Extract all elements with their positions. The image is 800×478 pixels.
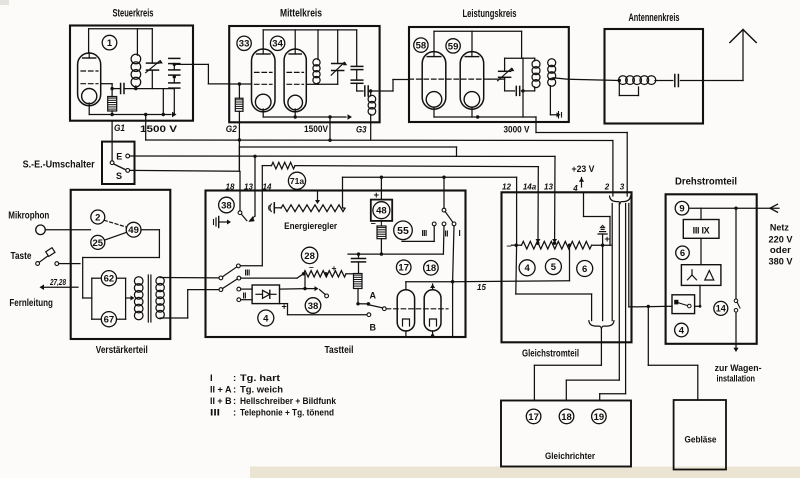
wire Taste stub bbox=[71, 263, 80, 265]
block box Antennenkreis bbox=[605, 29, 704, 124]
switch pole bbox=[111, 142, 113, 161]
arrow into transformer bbox=[126, 297, 132, 299]
tube V34 grid dashes bbox=[287, 71, 304, 73]
svg-text:Tg. hart: Tg. hart bbox=[240, 373, 281, 384]
svg-text:18: 18 bbox=[426, 263, 437, 274]
node output bbox=[173, 63, 176, 66]
dashed link 2-49 bbox=[104, 220, 126, 227]
svg-text:1500V: 1500V bbox=[304, 124, 329, 135]
wire +23V inside bbox=[583, 192, 585, 216]
wire varcap bottom bbox=[151, 70, 153, 89]
label circle 55 bbox=[394, 221, 413, 240]
tank right leg bbox=[522, 58, 524, 91]
node 28 mid bbox=[324, 272, 327, 275]
tube heater marks bbox=[403, 319, 410, 326]
svg-text:III: III bbox=[210, 408, 220, 419]
node tube top right bbox=[451, 280, 454, 283]
stage label circle 5 bbox=[545, 259, 561, 275]
capacitor C7 bbox=[351, 65, 363, 67]
meter box III IX bbox=[683, 220, 719, 239]
wire G1 to switch bbox=[111, 121, 113, 142]
wire 15 line bbox=[453, 281, 570, 282]
wire varcap C6 drop bbox=[337, 30, 339, 63]
wire coil to cap bbox=[655, 80, 673, 82]
contacts I II III bbox=[432, 222, 436, 226]
node G3 coil top bbox=[368, 90, 393, 92]
node A bbox=[367, 302, 371, 306]
svg-text:II + A: II + A bbox=[210, 385, 232, 396]
wire to antenna bbox=[680, 80, 743, 82]
resistor below 48 bbox=[377, 226, 386, 239]
svg-text:Tg. weich: Tg. weich bbox=[240, 385, 283, 396]
svg-text:18: 18 bbox=[561, 412, 572, 423]
label circle 28 bbox=[301, 247, 317, 263]
terminal circle 19 bbox=[592, 409, 607, 424]
svg-text:III IX: III IX bbox=[693, 226, 710, 236]
svg-text:II + B: II + B bbox=[210, 396, 232, 407]
wire ground to rheostat bbox=[274, 207, 281, 209]
ground Leistungskreis bbox=[557, 112, 561, 117]
wire III contact bbox=[433, 226, 435, 242]
wire pot left bbox=[512, 244, 522, 246]
tube V34 bbox=[284, 49, 306, 112]
relay label circle 67 bbox=[101, 312, 116, 327]
wire 3000V line bbox=[536, 132, 627, 134]
variable capacitor C6 bbox=[332, 63, 344, 65]
contact B bbox=[367, 313, 371, 317]
block box Tastteil bbox=[206, 191, 466, 338]
mode selector switch bbox=[442, 208, 446, 212]
wire brace output to Gleichrichter bbox=[600, 329, 602, 365]
wire node up to 28 bbox=[304, 274, 306, 289]
wire pot right bbox=[592, 244, 611, 246]
wire 28 right to resistor bbox=[346, 273, 358, 275]
svg-text:12: 12 bbox=[502, 183, 511, 192]
svg-text:installation: installation bbox=[717, 374, 756, 385]
tank bottom + capacitor C11 bbox=[505, 90, 515, 92]
wire 12 drop bbox=[516, 177, 518, 245]
tank top bbox=[505, 57, 523, 59]
stage label circle 14 bbox=[714, 301, 728, 315]
capacitor grid C2 bbox=[120, 84, 122, 94]
1500V arrow Mittel bbox=[348, 114, 353, 120]
svg-text:59: 59 bbox=[448, 41, 459, 52]
svg-text:28: 28 bbox=[304, 251, 315, 262]
scan edge strip bottom bbox=[250, 467, 800, 478]
block box Leistungskreis bbox=[409, 27, 569, 122]
svg-text:Mikrophon: Mikrophon bbox=[8, 211, 49, 222]
coil L2 tank bbox=[313, 59, 320, 66]
svg-text:+23 V: +23 V bbox=[572, 164, 595, 174]
wire grid line dashed bbox=[409, 78, 489, 80]
wire cathode rail 1500V bbox=[88, 103, 90, 115]
svg-text:A: A bbox=[370, 291, 377, 301]
wire anode rail Leistung bbox=[433, 31, 435, 51]
svg-text:Verstärkerteil: Verstärkerteil bbox=[96, 345, 148, 356]
wire tank to rail bbox=[522, 91, 524, 117]
svg-text:III: III bbox=[422, 229, 427, 238]
stage label circle 4 Drehstrom bbox=[675, 323, 689, 337]
lever S-branch bbox=[241, 214, 246, 220]
wire 49 to transformer bbox=[141, 229, 159, 231]
transformer T1 secondary bbox=[156, 277, 164, 285]
svg-text:–: – bbox=[507, 241, 512, 251]
diode D1 bbox=[256, 293, 263, 295]
wire cathode rail Leistung bbox=[433, 107, 435, 117]
wire antenna input bbox=[569, 79, 620, 80]
svg-text:14: 14 bbox=[716, 304, 726, 314]
block box Drehstromteil bbox=[666, 194, 757, 343]
wire 1500V bus bbox=[146, 139, 613, 142]
node 12 to pot bbox=[515, 244, 518, 247]
key switch Taste bbox=[36, 262, 40, 266]
svg-text:55: 55 bbox=[397, 225, 409, 237]
relay coils 62/67 parallel loop bbox=[91, 278, 93, 319]
capacitor C8 bbox=[351, 79, 363, 81]
node 48 bottom bbox=[380, 252, 383, 255]
svg-text:Gleichstromteil: Gleichstromteil bbox=[522, 349, 579, 360]
tube V34 label circle 34 bbox=[270, 36, 284, 50]
wire 3000V drop bbox=[535, 117, 537, 133]
wire interstage Mittel-Leistung bbox=[392, 80, 394, 92]
node contactor out bbox=[699, 305, 702, 308]
svg-text:380 V: 380 V bbox=[769, 257, 794, 268]
star symbol bbox=[691, 270, 693, 275]
svg-text::: : bbox=[233, 373, 236, 384]
svg-text:62: 62 bbox=[104, 274, 115, 285]
relay label circle 62 bbox=[101, 271, 116, 286]
potentiometer bbox=[522, 241, 592, 249]
node grid junction bbox=[110, 87, 113, 90]
tube V58 label circle 58 bbox=[414, 38, 428, 52]
terminal circle 18 bbox=[559, 409, 574, 424]
contact III upper bbox=[237, 264, 241, 268]
label circle 18 Tastteil bbox=[424, 261, 439, 276]
svg-text::: : bbox=[233, 408, 236, 419]
transformer T1 core bbox=[147, 275, 149, 322]
contactor box bbox=[672, 295, 695, 314]
svg-text:II: II bbox=[445, 230, 449, 239]
wire tube bottoms bbox=[405, 331, 407, 336]
svg-text:Gleichrichter: Gleichrichter bbox=[545, 451, 595, 462]
tube small 18 bbox=[424, 290, 441, 331]
resistor G1 (grid leak) bbox=[108, 97, 117, 112]
rheostat wiper arrow bbox=[317, 192, 319, 201]
tube V58 bbox=[422, 52, 446, 110]
wire diode out bbox=[280, 288, 306, 291]
svg-text:B: B bbox=[370, 323, 377, 333]
cable brace top bbox=[610, 196, 631, 204]
resistor G2 bbox=[235, 98, 243, 111]
wire to output cap bbox=[357, 90, 363, 92]
node wiper 13 bbox=[553, 242, 556, 245]
stage label circle 49 bbox=[126, 222, 141, 237]
capacitor C13 bbox=[358, 254, 360, 258]
capacitor stack C4 bbox=[169, 69, 180, 71]
svg-text:Telephonie + Tg. tönend: Telephonie + Tg. tönend bbox=[240, 408, 334, 419]
resistor 71a bbox=[272, 162, 296, 169]
node 48 feed bbox=[380, 176, 383, 179]
coil L5 secondary bbox=[548, 59, 556, 67]
svg-text:25: 25 bbox=[93, 238, 104, 249]
svg-text:Leistungskreis: Leistungskreis bbox=[463, 8, 517, 20]
node plus end bbox=[601, 244, 604, 247]
antenna symbol bbox=[730, 30, 756, 43]
wire 13 drop with wiper arrow bbox=[554, 156, 556, 240]
wire lower contact to 28 bbox=[241, 277, 297, 279]
wire grid to coil bbox=[124, 88, 174, 90]
stage label circle 9 bbox=[675, 201, 689, 215]
wire Fernleitung stub bbox=[71, 286, 78, 288]
svg-text:71a: 71a bbox=[290, 176, 304, 186]
wire interstage Steuer-Mittel bbox=[176, 63, 209, 65]
svg-text:27,28: 27,28 bbox=[49, 277, 66, 287]
tube V1 bbox=[78, 53, 101, 106]
svg-text::: : bbox=[233, 396, 236, 407]
wire secondary top to switch bbox=[160, 277, 219, 279]
wire I contact bbox=[453, 226, 454, 282]
svg-text:I: I bbox=[210, 373, 213, 384]
wire plus output down bbox=[602, 245, 604, 320]
wire meter to star-delta bbox=[700, 238, 702, 264]
tube V33 bbox=[252, 49, 276, 112]
label circle 38b bbox=[305, 298, 321, 314]
wire brace feeds bbox=[611, 204, 613, 321]
coil L4 primary bbox=[523, 57, 535, 59]
coil tap link bbox=[618, 81, 620, 96]
node stack lower bbox=[173, 75, 176, 78]
svg-text:Drehstromteil: Drehstromteil bbox=[675, 177, 737, 188]
coil L1 bbox=[131, 54, 141, 64]
stage label circle 4 bbox=[519, 260, 535, 276]
svg-text::: : bbox=[233, 385, 236, 396]
node cap bbox=[357, 252, 360, 255]
svg-text:4: 4 bbox=[263, 313, 269, 324]
wire coil L2 top drop bbox=[317, 30, 319, 60]
svg-text:2: 2 bbox=[95, 212, 100, 223]
wire row 254 bbox=[348, 253, 443, 255]
svg-text:–: – bbox=[309, 262, 314, 272]
cable brace bottom bbox=[589, 321, 614, 329]
tube V1 grid dashes bbox=[81, 70, 98, 72]
svg-text:17: 17 bbox=[398, 263, 409, 274]
node 28 left bbox=[302, 272, 305, 275]
svg-text:+: + bbox=[332, 263, 337, 273]
svg-text:4: 4 bbox=[524, 263, 530, 274]
wire Fernleitung with arrow bbox=[41, 286, 71, 288]
wire 12 line bbox=[343, 176, 517, 178]
switch box S-E-Umschalter bbox=[102, 142, 135, 184]
svg-text:3000 V: 3000 V bbox=[504, 125, 531, 136]
node mains bbox=[734, 207, 737, 210]
lever A-B bbox=[370, 305, 383, 308]
lever 38 bbox=[320, 290, 326, 295]
label circle 71a bbox=[288, 172, 305, 189]
wire 71a to terminal 14a bbox=[295, 166, 538, 167]
tube V59 label circle 59 bbox=[446, 39, 460, 53]
svg-text:34: 34 bbox=[272, 39, 283, 50]
wire 1500V drop to bus bbox=[145, 115, 147, 141]
svg-text:Antennenkreis: Antennenkreis bbox=[629, 12, 680, 24]
svg-text:14a: 14a bbox=[523, 183, 537, 192]
microphone symbol bbox=[36, 225, 46, 235]
svg-text:4: 4 bbox=[572, 184, 578, 193]
mains arrow bbox=[770, 204, 778, 208]
node rail 1500V drop bbox=[144, 113, 147, 116]
svg-text:38: 38 bbox=[308, 301, 319, 312]
svg-text:Mittelkreis: Mittelkreis bbox=[280, 8, 322, 20]
svg-text:1: 1 bbox=[107, 38, 113, 49]
node bus Mittel bbox=[328, 139, 331, 142]
label circle 4 Tastteil bbox=[258, 310, 274, 326]
wire E branch into Tastteil bbox=[254, 156, 256, 216]
resistor 71a line bbox=[262, 165, 271, 167]
stage label circle 6 bbox=[577, 261, 593, 277]
wire cap stack link Mittel bbox=[356, 30, 358, 67]
levers bbox=[223, 267, 237, 277]
tube V59 bbox=[460, 52, 484, 110]
svg-text:13: 13 bbox=[544, 183, 553, 192]
stage label circle 25 bbox=[91, 235, 105, 249]
node A line left bbox=[356, 302, 359, 305]
svg-text:+: + bbox=[374, 190, 380, 201]
svg-text:S.-E.-Umschalter: S.-E.-Umschalter bbox=[23, 160, 95, 171]
wire 1500V drop Mittel bbox=[329, 117, 331, 140]
svg-text:15: 15 bbox=[477, 283, 486, 292]
svg-text:Taste: Taste bbox=[11, 251, 32, 262]
svg-text:G2: G2 bbox=[226, 124, 238, 135]
svg-text:33: 33 bbox=[239, 39, 250, 50]
capacitor C12 antenna bbox=[674, 75, 676, 87]
wire mains vertical with switch bbox=[735, 208, 737, 299]
resistor row 28 bbox=[304, 271, 347, 277]
double switch poles from Verstaerker bbox=[219, 276, 223, 280]
tube V33 grid dashes bbox=[255, 71, 273, 73]
node rail stack bbox=[162, 113, 165, 116]
switch lever bbox=[114, 164, 126, 170]
wire secondary to ground bbox=[549, 86, 551, 115]
label circle 17 Tastteil bbox=[396, 260, 411, 275]
wire Taste bbox=[59, 263, 71, 265]
wire tank bottom row bbox=[317, 83, 319, 84]
wire star-delta down bbox=[699, 285, 701, 306]
wire tube tops bbox=[405, 282, 407, 290]
contact III lower bbox=[237, 276, 241, 280]
dashed line through tubes bbox=[386, 308, 448, 310]
node diode out bbox=[303, 287, 306, 290]
wire energieregler riser bbox=[342, 177, 344, 208]
wire S riser bbox=[238, 147, 240, 171]
resistor R vertical bbox=[354, 274, 363, 289]
svg-text:E: E bbox=[116, 152, 122, 162]
stage label circle 2 bbox=[91, 210, 105, 224]
capacitor C9 output bbox=[364, 86, 366, 96]
ground with arrow (keying) bbox=[213, 220, 215, 225]
svg-text:5: 5 bbox=[551, 262, 557, 273]
regulator box 48 bbox=[371, 200, 392, 221]
svg-text:Gebläse: Gebläse bbox=[685, 435, 717, 446]
svg-text:Energieregler: Energieregler bbox=[284, 221, 337, 232]
wire coil top drop bbox=[136, 29, 138, 55]
wire to Geblaese bbox=[647, 306, 649, 365]
block box Gleichstromteil bbox=[502, 192, 632, 342]
node feed junction bbox=[647, 305, 650, 308]
contact S-branch bbox=[238, 211, 242, 215]
svg-text:S: S bbox=[116, 171, 122, 181]
svg-text:58: 58 bbox=[416, 41, 427, 52]
svg-text:9: 9 bbox=[679, 204, 684, 215]
wire G3 drop to bus bbox=[370, 114, 372, 140]
capacitor stack C3 bbox=[169, 57, 180, 59]
tube small 17 bbox=[397, 290, 414, 331]
1500V supply arrow bbox=[172, 112, 177, 118]
svg-text:G1: G1 bbox=[114, 123, 125, 134]
svg-text:3: 3 bbox=[620, 183, 625, 192]
wire cap stack link bbox=[173, 64, 175, 70]
wire mic stub bbox=[71, 229, 91, 231]
tube V33 label circle 33 bbox=[237, 36, 251, 50]
node mode switch feed bbox=[442, 176, 445, 179]
star-delta box bbox=[681, 265, 721, 286]
svg-text:49: 49 bbox=[128, 225, 139, 236]
transformer T1 primary bbox=[134, 277, 143, 286]
capacitor stack C5 bbox=[169, 82, 180, 84]
svg-text:Tastteil: Tastteil bbox=[325, 345, 354, 356]
variable capacitor C1 bbox=[147, 62, 159, 64]
wire anode rail Mittel bbox=[262, 30, 264, 49]
svg-text:G3: G3 bbox=[356, 125, 367, 136]
svg-text:zur Wagen-: zur Wagen- bbox=[715, 363, 762, 374]
wire mains line bbox=[690, 207, 779, 209]
wire G2 drop bbox=[238, 111, 240, 171]
+23V arrow bbox=[581, 178, 583, 188]
svg-text:2: 2 bbox=[604, 183, 610, 192]
svg-text:–: – bbox=[371, 218, 376, 228]
tube V1 label circle 1 bbox=[102, 35, 117, 50]
svg-text:6: 6 bbox=[680, 248, 685, 259]
svg-text:1500 V: 1500 V bbox=[140, 124, 178, 135]
block box Gleichrichter bbox=[501, 401, 631, 467]
wire 71a drop to contact bbox=[261, 166, 263, 266]
wire S line bbox=[130, 169, 240, 172]
node wiper 14a bbox=[536, 242, 539, 245]
block box Verstaerkerteil bbox=[71, 190, 171, 339]
wire S drop to keying contact bbox=[239, 171, 241, 211]
svg-text:19: 19 bbox=[594, 412, 605, 423]
wire rheostat right riser bbox=[343, 207, 346, 209]
terminal circle 17 bbox=[526, 409, 541, 424]
coil L6 antenna loading bbox=[619, 76, 628, 85]
wires into diode box bbox=[241, 288, 252, 290]
wire 48 drop bbox=[380, 177, 382, 199]
delta symbol bbox=[705, 271, 714, 281]
tank circuit left leg with variable capacitor C10 bbox=[504, 58, 506, 71]
wire tap down to 15 line bbox=[569, 245, 571, 281]
wire 14a drop with wiper arrow bbox=[537, 167, 539, 240]
svg-text:Hellschreiber + Bildfunk: Hellschreiber + Bildfunk bbox=[240, 396, 337, 407]
diode box bbox=[252, 285, 279, 304]
node coil tap bbox=[618, 79, 621, 82]
svg-text:Netz: Netz bbox=[770, 223, 789, 234]
link 25-49 bbox=[105, 232, 127, 240]
svg-text:48: 48 bbox=[376, 206, 387, 217]
node tap bbox=[568, 244, 571, 247]
Energieregler ground bbox=[268, 206, 271, 211]
wire II contact bbox=[442, 226, 445, 254]
svg-text:67: 67 bbox=[104, 315, 115, 326]
svg-text:III: III bbox=[245, 269, 250, 278]
node bus G2 bbox=[238, 138, 241, 141]
